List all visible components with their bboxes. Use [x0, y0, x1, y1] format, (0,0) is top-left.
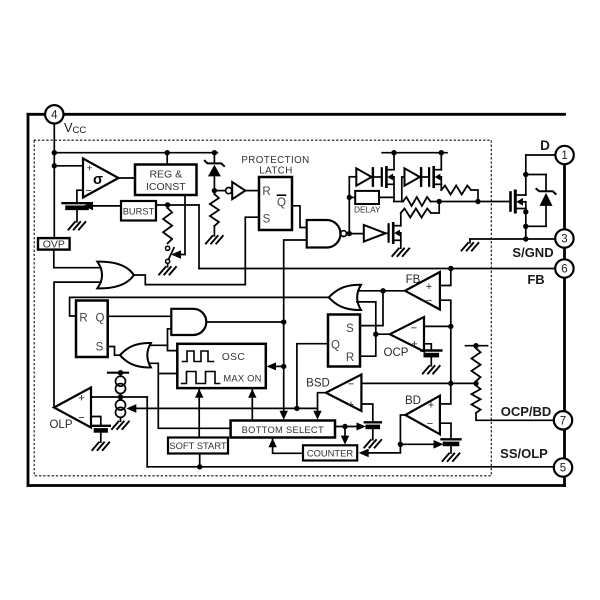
- wire gate line to power MOSFET: [439, 201, 510, 203]
- arrow into current source: [126, 404, 136, 413]
- block DELAY: [354, 191, 381, 215]
- node M2 drain: [439, 150, 444, 155]
- ground OLP cap: [92, 443, 109, 451]
- node FB output branch: [380, 288, 385, 293]
- wire OLP output riser to OR gate input B: [54, 282, 101, 407]
- node M1 drain: [391, 150, 396, 155]
- current source I1/I2: [108, 370, 128, 421]
- wire protection latch S input from OR output: [134, 217, 259, 284]
- wire switch to ground: [167, 264, 169, 267]
- wire M3 drain to R2: [400, 213, 402, 226]
- svg-text:DELAY: DELAY: [354, 205, 381, 215]
- wire cap C1 to ground: [76, 208, 78, 222]
- svg-text:+: +: [411, 339, 417, 351]
- node drain: [523, 172, 528, 177]
- wire bottom select output right: [335, 426, 357, 428]
- wire FB output: [358, 290, 405, 292]
- node OCP out branch: [373, 332, 378, 337]
- resistor burst divider: [167, 205, 169, 208]
- node zener/resistor/inverter: [212, 188, 217, 193]
- wire AND input B from OSC tap: [168, 329, 178, 351]
- block BOTTOM SELECT: [231, 421, 335, 438]
- wire DELAY out: [379, 196, 394, 198]
- svg-text:BURST: BURST: [123, 207, 155, 217]
- wire rail to REG box: [166, 153, 168, 165]
- svg-text:PROTECTION: PROTECTION: [241, 155, 309, 166]
- svg-text:−: −: [78, 412, 84, 424]
- wire soft start bottom: [199, 454, 201, 467]
- pin 6 circle: [555, 259, 573, 277]
- capacitor C5 OLP: [92, 426, 110, 431]
- resistor R divider upper: [472, 348, 481, 381]
- wire M2 source to series resistor: [440, 184, 442, 190]
- pin 4 circle: [45, 105, 63, 123]
- svg-text:3: 3: [561, 234, 567, 246]
- resistor R burst: [163, 208, 172, 243]
- ground BSD cap: [364, 440, 381, 448]
- wire M1 source to gate node: [393, 184, 395, 201]
- svg-text:σ: σ: [93, 172, 103, 188]
- wire OLP- to cap: [91, 417, 101, 426]
- svg-text:−: −: [427, 418, 433, 430]
- node REG supply tap: [165, 150, 170, 155]
- node Q join: [294, 406, 299, 411]
- wire OR-B input from OCP out: [357, 302, 376, 334]
- wire Qbar to NAND input A: [292, 206, 307, 228]
- wire BD out to cap node: [400, 443, 434, 445]
- wire small OR input A tee: [151, 344, 168, 346]
- wire SS/OLP to pin 5: [147, 466, 554, 468]
- svg-text:COUNTER: COUNTER: [307, 448, 354, 459]
- svg-text:5: 5: [560, 463, 566, 475]
- wire S input from small OR: [108, 347, 120, 356]
- wire FB- to sense riser: [440, 300, 451, 326]
- svg-text:FB: FB: [527, 272, 544, 287]
- transistor Q4 power MOSFET: [511, 191, 526, 212]
- resistor R1 gate drive: [403, 197, 431, 206]
- wire D2 to M2 gate: [421, 176, 429, 178]
- svg-text:+: +: [87, 163, 93, 175]
- svg-text:−: −: [86, 185, 92, 197]
- svg-text:SOFT START: SOFT START: [169, 440, 227, 451]
- svg-text:OLP: OLP: [49, 419, 72, 431]
- latch U13 (R Q S main drive latch): [76, 301, 108, 358]
- node burst resistor tap: [165, 202, 170, 207]
- resistor R2 gate drive: [401, 209, 431, 218]
- pin 7 circle: [554, 411, 572, 429]
- wire drain to zener: [526, 174, 546, 176]
- waveform glyph 1: [183, 351, 214, 362]
- capacitor C4 BD: [442, 439, 461, 444]
- block SOFT START: [168, 438, 228, 454]
- node sense (FB-/OCP-): [448, 324, 453, 329]
- svg-text:REG &: REG &: [149, 169, 182, 181]
- wire BD output: [400, 415, 405, 444]
- pin 3 circle: [555, 229, 573, 247]
- wire soft start riser to OSC: [198, 390, 200, 438]
- node R3 join: [475, 199, 480, 204]
- svg-text:4: 4: [51, 109, 58, 121]
- svg-text:+: +: [428, 400, 434, 412]
- ground OCP cap: [423, 366, 440, 374]
- svg-text:R: R: [262, 186, 270, 198]
- resistor R zener divider: [210, 194, 219, 226]
- latch U3 protection latch (R S Qbar): [259, 177, 292, 230]
- svg-text:SS/OLP: SS/OLP: [500, 446, 548, 461]
- svg-text:Q: Q: [331, 340, 340, 352]
- wire D2 anode drop: [402, 176, 405, 178]
- wire op-amp output to REG: [119, 177, 136, 179]
- arrow BSD out into BOTTOM SELECT: [313, 411, 321, 420]
- block COUNTER: [303, 445, 357, 460]
- wire OVP to OR gate input A: [54, 250, 101, 268]
- arrow feedback into op-amp node: [83, 202, 93, 211]
- wire R3 to gate line: [471, 190, 478, 202]
- wire sense riser: [450, 326, 452, 404]
- wire drain up to pin 1: [525, 155, 527, 195]
- node DELAY tap: [347, 195, 352, 200]
- svg-text:+: +: [426, 281, 432, 293]
- transistor Q2 driver high-side (MOSFET): [429, 167, 441, 186]
- node Vcc rail tee: [52, 150, 57, 155]
- ground current source: [112, 422, 129, 430]
- wire R1 to gate node: [431, 201, 440, 203]
- gate AND U14: [171, 309, 206, 335]
- node BSD line tap: [448, 381, 453, 386]
- wire BSD+ to cap: [361, 404, 372, 422]
- wire M3 source to ground: [400, 240, 402, 248]
- comparator U6 FB: [405, 272, 440, 310]
- svg-text:MAX ON: MAX ON: [223, 373, 261, 384]
- wire NAND input B from main logic riser: [284, 240, 307, 412]
- wire counter output to bottom select: [273, 440, 303, 454]
- svg-text:+: +: [348, 399, 354, 411]
- block REG & ICONST: [135, 165, 197, 196]
- svg-text:OCP/BD: OCP/BD: [501, 404, 552, 419]
- wire Vcc top rail: [54, 152, 217, 154]
- svg-text:−: −: [411, 323, 417, 335]
- capacitor C1 at op-amp - input: [63, 203, 92, 208]
- wire NAND output: [347, 233, 350, 235]
- wire BD+ from riser: [440, 403, 451, 405]
- svg-text:BSD: BSD: [306, 378, 330, 390]
- svg-text:+: +: [78, 393, 84, 405]
- wire to DELAY: [349, 196, 355, 198]
- ground S/GND: [462, 243, 479, 251]
- node soft start joint: [197, 464, 202, 469]
- op-amp U1 (sigma regulator amp): [83, 159, 119, 198]
- IC dashed boundary: [34, 140, 491, 476]
- gate buffer U5 low-side: [364, 225, 386, 242]
- node soft-start tap: [118, 394, 123, 399]
- switch burst (contacts): [166, 246, 170, 250]
- wire Vcc vertical from pin 4: [53, 124, 55, 239]
- wire M1 drain to rail: [393, 153, 395, 170]
- latch U9 (S Q R drive latch): [328, 315, 360, 367]
- svg-text:S: S: [346, 323, 354, 335]
- comparator U10 BSD: [326, 375, 362, 412]
- wire driver rail: [382, 152, 447, 154]
- wire D1 to M1 gate: [373, 176, 382, 178]
- svg-text:1: 1: [561, 150, 567, 162]
- wire S/GND internal ground stem: [469, 239, 471, 243]
- capacitor C3 BSD: [365, 422, 381, 427]
- transistor Q1 driver high-side (MOSFET): [382, 167, 394, 186]
- arrow into BOTTOM SELECT from riser: [280, 411, 288, 420]
- wire SS/OLP riser: [146, 397, 148, 467]
- diode D2 driver: [405, 168, 422, 185]
- wire node A to R1: [394, 201, 403, 203]
- wire FB line from pin 6: [199, 268, 555, 270]
- wire OSC stub 2: [158, 373, 177, 375]
- svg-text:S/GND: S/GND: [512, 245, 553, 260]
- node BD out branch: [398, 442, 403, 447]
- wire OCP- to sense node: [424, 325, 451, 327]
- wire BD- segment: [440, 423, 451, 439]
- node source on S/GND wire: [523, 236, 528, 241]
- wire BURST node to FB line: [198, 205, 200, 269]
- diode D1 driver: [356, 168, 373, 185]
- ground zener divider: [206, 236, 223, 244]
- svg-text:S: S: [96, 342, 104, 354]
- wire AND output to riser: [206, 321, 283, 323]
- node gate drive: [437, 199, 442, 204]
- wire resistor to ground: [213, 226, 215, 236]
- wire BSD output: [318, 393, 326, 412]
- wire BURST output: [156, 204, 199, 206]
- inverter U2 into protection latch R: [217, 182, 259, 199]
- wire driver input vertical: [348, 177, 350, 234]
- svg-text:R: R: [79, 313, 87, 325]
- svg-text:−: −: [426, 295, 432, 307]
- svg-text:6: 6: [561, 264, 567, 276]
- wire FB+ to FB line: [440, 269, 451, 286]
- resistor R3 gate series: [441, 186, 471, 195]
- block OVP: [38, 238, 70, 251]
- resistor R divider lower: [472, 386, 481, 413]
- transistor Q3 driver low-side (MOSFET): [389, 223, 401, 242]
- wire small OR input B from bottom select: [151, 363, 231, 428]
- wire S/GND to pin 3: [470, 238, 555, 240]
- svg-text:D: D: [540, 138, 550, 153]
- svg-text:BOTTOM SELECT: BOTTOM SELECT: [242, 425, 324, 435]
- wire OR output long to left latch R: [70, 297, 329, 316]
- gate NAND U4: [307, 220, 347, 248]
- outer package border: [28, 114, 565, 485]
- node NAND out: [347, 231, 352, 236]
- wire M2 drain to rail: [440, 153, 442, 170]
- wire OLP+ to soft start node: [91, 396, 147, 398]
- waveform glyph 2: [182, 372, 220, 384]
- svg-text:Q: Q: [96, 313, 105, 325]
- ground driver: [392, 249, 409, 257]
- gate OR U12 (OVP/OLP): [97, 262, 134, 289]
- gate OR U15 (set): [120, 343, 151, 367]
- wire bottom select riser to OSC maxon: [251, 390, 253, 421]
- svg-text:OSC: OSC: [222, 352, 245, 363]
- wire op-amp - input: [77, 190, 83, 202]
- wire OCP+ to cap: [424, 344, 431, 351]
- node OSC sync on riser: [281, 364, 286, 369]
- svg-text:LATCH: LATCH: [259, 166, 292, 177]
- wire op-amp + input: [54, 165, 83, 167]
- wire FB out to latch S: [360, 291, 383, 326]
- block BURST: [121, 201, 156, 221]
- zener D3 (Vcc clamp): [205, 153, 224, 191]
- svg-text:−: −: [348, 379, 354, 391]
- wire BSD- sense line: [361, 382, 476, 384]
- comparator U8 OCP: [390, 317, 424, 352]
- node zener join: [523, 224, 528, 229]
- node divider tap: [473, 381, 478, 386]
- block OSC / MAX ON: [177, 344, 265, 388]
- svg-text:OCP: OCP: [384, 347, 409, 359]
- capacitor C2 OCP: [421, 351, 441, 356]
- wire OCP output: [376, 333, 390, 335]
- ground for C1: [69, 222, 86, 230]
- arrow switch control from REG: [171, 250, 181, 259]
- svg-text:VCC: VCC: [64, 120, 86, 136]
- comparator U11 BD: [405, 396, 440, 435]
- wire Q to AND input A: [108, 315, 172, 317]
- pin 5 circle: [554, 458, 572, 476]
- wire Q output down to BSD net: [297, 344, 328, 409]
- wire BD out to counter: [369, 444, 400, 453]
- node bs out: [342, 424, 347, 429]
- comparator U16 OLP: [54, 388, 91, 428]
- zener D4 drain clamp: [526, 175, 556, 227]
- svg-text:Q: Q: [277, 197, 286, 209]
- ground BD cap: [443, 454, 460, 462]
- pin 1 circle: [555, 146, 573, 164]
- wire source down to S/GND: [525, 209, 527, 240]
- node zener tap: [212, 150, 217, 155]
- node AND output on riser: [281, 319, 286, 324]
- arrow OSC sync from riser: [276, 365, 285, 367]
- wire BSD out to current source control: [136, 407, 317, 409]
- svg-text:ICONST: ICONST: [146, 181, 186, 193]
- wire divider bottom to pin 7: [476, 413, 554, 420]
- wire OCP out to latch R: [360, 334, 376, 356]
- node FB amp + tap: [448, 266, 453, 271]
- svg-text:R: R: [346, 352, 354, 364]
- ground burst switch: [159, 267, 176, 275]
- svg-text:7: 7: [560, 415, 566, 427]
- wire bs out down to counter: [344, 427, 346, 436]
- gate OR U7 (FB+OCP): [329, 285, 361, 310]
- svg-text:BD: BD: [405, 395, 421, 407]
- wire R2 to gate node: [431, 202, 439, 214]
- resistor divider top bar: [466, 345, 488, 347]
- svg-text:S: S: [263, 214, 271, 226]
